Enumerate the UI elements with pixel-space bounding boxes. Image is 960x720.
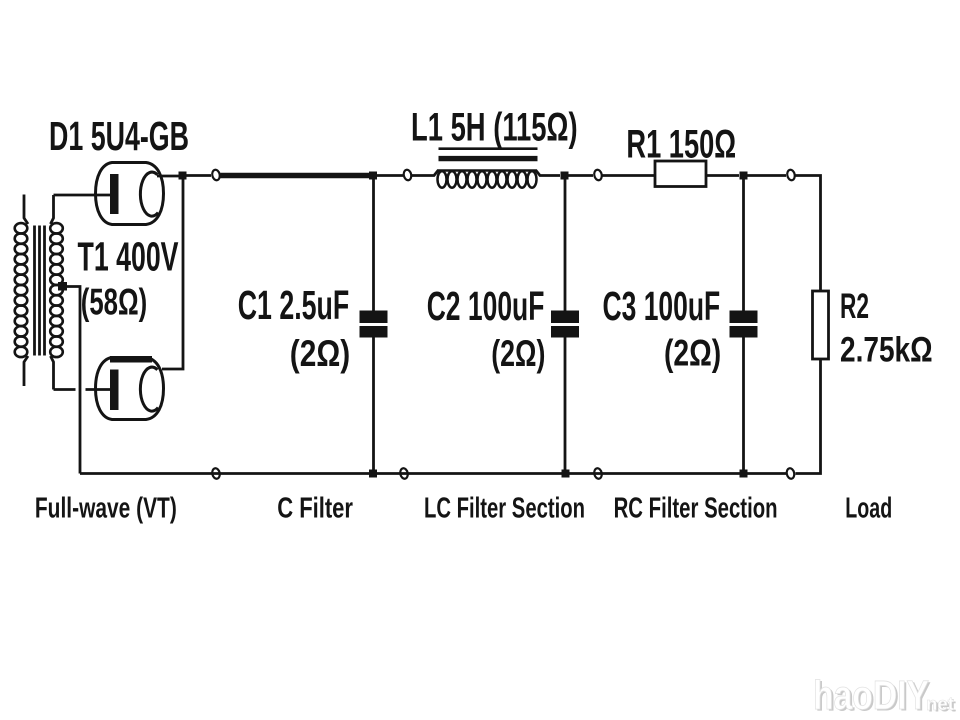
- svg-text:D1 5U4-GB: D1 5U4-GB: [49, 113, 189, 159]
- svg-text:net: net: [926, 694, 954, 714]
- rectifier tube V2 (bottom diode of D1) envelope: [96, 358, 164, 420]
- wire to terminal: [569, 174, 594, 177]
- node C2 top junction dot: [561, 172, 569, 180]
- tube V1 cathode arc: [140, 172, 158, 216]
- terminal circle: [403, 169, 412, 181]
- terminal circle: [211, 169, 220, 181]
- terminal circle: [786, 169, 795, 181]
- node C1 bottom junction dot: [369, 470, 377, 478]
- resistor R2 bottom lead: [796, 359, 821, 474]
- inductor L1 loops: [438, 171, 537, 188]
- tube V2 plate: [110, 370, 119, 411]
- resistor R2 body: [813, 291, 829, 359]
- transformer T1 primary winding: [15, 223, 28, 357]
- wire terminal to R1: [603, 174, 656, 177]
- node center tap dot: [58, 282, 67, 291]
- tube V2 cathode arc: [140, 367, 158, 411]
- bottom rail wire: [80, 472, 786, 475]
- svg-text:(58Ω): (58Ω): [81, 282, 147, 323]
- terminal circle bottom left: [211, 468, 220, 480]
- svg-text:haoDΙY: haoDΙY: [813, 672, 929, 718]
- rectifier tube V1 (top diode of D1) envelope: [96, 163, 164, 225]
- node C2 bottom junction dot: [562, 470, 570, 478]
- wire tube V1 cathode stub to node A: [157, 175, 182, 178]
- tube V2 thick top chord: [110, 356, 152, 363]
- terminal circle: [399, 468, 408, 480]
- wire thick B+ segment: [221, 173, 370, 179]
- svg-text:C2 100uF: C2 100uF: [427, 283, 545, 329]
- capacitor C1 top lead: [372, 179, 375, 311]
- wire terminal to L1: [412, 171, 438, 176]
- svg-text:C Filter: C Filter: [277, 493, 353, 525]
- svg-text:Full-wave (VT): Full-wave (VT): [35, 493, 177, 525]
- capacitor C2 top lead: [564, 179, 567, 311]
- node A junction dot: [179, 172, 187, 180]
- svg-text:C3 100uF: C3 100uF: [603, 283, 721, 329]
- wire secondary top to tube V1 plate: [54, 194, 111, 197]
- terminal circle: [593, 169, 602, 181]
- terminal circle: [593, 468, 602, 480]
- wire secondary bottom to tube V2 plate (with crossover gap): [54, 388, 76, 391]
- wire tube V2 cathode up to node A: [162, 177, 183, 369]
- wire center tap to bottom rail: [62, 287, 80, 474]
- transformer T1 core: [35, 226, 45, 356]
- node C1 top junction dot: [369, 172, 377, 180]
- svg-text:(2Ω): (2Ω): [290, 333, 350, 374]
- svg-text:(2Ω): (2Ω): [664, 333, 721, 374]
- wire terminal to R2 top: [796, 176, 821, 292]
- svg-text:T1 400V: T1 400V: [78, 234, 179, 280]
- svg-text:2.75kΩ: 2.75kΩ: [840, 331, 933, 370]
- capacitor C2 plates: [551, 311, 579, 324]
- resistor R1 body: [655, 161, 706, 187]
- wire L1 to node C2: [536, 171, 560, 176]
- wire to terminal: [748, 174, 787, 177]
- wire node A to terminal: [186, 174, 211, 177]
- svg-text:Load: Load: [845, 493, 892, 525]
- capacitor C3 bottom lead: [742, 337, 745, 474]
- capacitor C3 plates: [730, 311, 758, 324]
- svg-text:LC Filter Section: LC Filter Section: [424, 493, 585, 525]
- capacitor C1 plates: [360, 311, 388, 324]
- transformer T1 secondary winding: [50, 223, 63, 357]
- svg-text:R1 150Ω: R1 150Ω: [626, 123, 736, 167]
- transformer T1 primary bottom lead: [24, 356, 28, 386]
- svg-text:RC Filter Section: RC Filter Section: [614, 493, 778, 525]
- tube V1 plate: [110, 174, 119, 214]
- transformer T1 secondary bottom lead: [51, 356, 54, 390]
- svg-text:L1 5H (115Ω): L1 5H (115Ω): [411, 106, 578, 150]
- inductor L1 thick core bar: [439, 156, 538, 161]
- capacitor C3 top lead: [742, 179, 745, 311]
- capacitor C1 bottom lead: [372, 337, 375, 474]
- svg-text:C1 2.5uF: C1 2.5uF: [238, 282, 350, 328]
- svg-text:R2: R2: [840, 287, 869, 326]
- wire to terminal: [377, 174, 403, 177]
- node C3 bottom junction dot: [740, 470, 748, 478]
- wire R1 to node C3: [706, 174, 739, 177]
- transformer T1 primary top lead: [24, 195, 28, 225]
- node C3 top junction dot: [740, 172, 748, 180]
- terminal circle bottom right: [786, 468, 795, 480]
- inductor L1 winding line: [437, 169, 537, 172]
- capacitor C2 bottom lead: [564, 337, 567, 474]
- svg-text:(2Ω): (2Ω): [491, 333, 545, 374]
- inductor L1 thin core bar: [439, 147, 538, 150]
- watermark haoDIY.net: [813, 672, 956, 720]
- transformer T1 secondary top lead: [51, 195, 54, 224]
